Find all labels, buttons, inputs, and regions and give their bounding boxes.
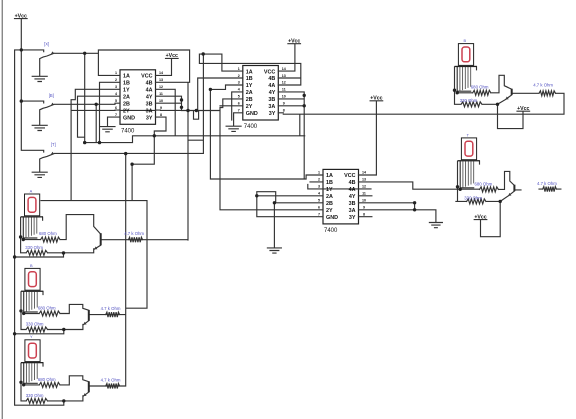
svg-text:2: 2 [115, 78, 117, 82]
svg-text:B: B [30, 263, 33, 268]
svg-text:4B: 4B [349, 180, 356, 186]
svg-text:3A: 3A [268, 104, 275, 110]
svg-text:5: 5 [115, 99, 117, 103]
svg-text:680 Ohm: 680 Ohm [38, 377, 56, 382]
svg-text:680 Ohm: 680 Ohm [39, 231, 57, 236]
svg-text:2Y: 2Y [326, 208, 333, 214]
svg-text:7: 7 [238, 109, 240, 113]
svg-text:5: 5 [318, 199, 320, 203]
svg-text:11: 11 [159, 92, 163, 96]
svg-text:A: A [30, 188, 33, 193]
svg-text:[B]: [B] [49, 93, 54, 98]
svg-text:+Vcc: +Vcc [288, 39, 300, 45]
svg-text:6: 6 [238, 102, 240, 106]
svg-text:1Y: 1Y [246, 83, 253, 89]
svg-text:4: 4 [115, 92, 117, 96]
svg-text:10: 10 [159, 99, 163, 103]
svg-text:7400: 7400 [121, 129, 135, 135]
svg-text:14: 14 [362, 171, 366, 175]
svg-text:8: 8 [160, 113, 162, 117]
svg-text:330 Ohm: 330 Ohm [26, 321, 44, 326]
svg-text:9: 9 [363, 205, 365, 209]
svg-text:4A: 4A [349, 187, 356, 193]
svg-text:4.7 k Ohm: 4.7 k Ohm [124, 231, 144, 236]
svg-text:GND: GND [123, 115, 135, 121]
svg-text:3: 3 [115, 85, 117, 89]
svg-text:VCC: VCC [344, 173, 355, 179]
svg-text:680 Ohm: 680 Ohm [471, 84, 489, 89]
svg-text:GND: GND [246, 111, 258, 117]
svg-text:2B: 2B [123, 101, 130, 107]
svg-text:4.7 k Ohm: 4.7 k Ohm [101, 306, 121, 311]
svg-text:1B: 1B [326, 180, 333, 186]
svg-text:2Y: 2Y [246, 104, 253, 110]
svg-text:2Y: 2Y [123, 108, 130, 114]
svg-text:6: 6 [318, 205, 320, 209]
svg-text:1A: 1A [123, 74, 130, 80]
svg-text:2: 2 [318, 178, 320, 182]
svg-text:3: 3 [238, 81, 240, 85]
svg-text:[X]: [X] [44, 42, 49, 47]
svg-text:7400: 7400 [324, 228, 338, 234]
svg-text:+Vcc: +Vcc [474, 214, 486, 220]
svg-text:4A: 4A [146, 88, 153, 94]
svg-text:680 Ohm: 680 Ohm [475, 181, 493, 186]
svg-text:4: 4 [318, 192, 320, 196]
svg-text:3B: 3B [349, 201, 356, 207]
svg-text:7400: 7400 [244, 124, 258, 130]
svg-text:330 Ohm: 330 Ohm [26, 393, 44, 398]
svg-text:12: 12 [362, 185, 366, 189]
svg-text:4B: 4B [146, 81, 153, 87]
svg-text:13: 13 [362, 178, 366, 182]
svg-text:8: 8 [363, 212, 365, 216]
svg-text:4.7 k Ohm: 4.7 k Ohm [533, 82, 553, 87]
svg-text:3A: 3A [146, 108, 153, 114]
svg-text:8: 8 [283, 109, 285, 113]
svg-text:330 Ohm: 330 Ohm [25, 245, 43, 250]
svg-text:4.7 k Ohm: 4.7 k Ohm [537, 181, 557, 186]
svg-text:Y: Y [30, 334, 33, 339]
svg-text:9: 9 [283, 102, 285, 106]
svg-text:2B: 2B [326, 201, 333, 207]
svg-text:3B: 3B [268, 97, 275, 103]
svg-text:+Vcc: +Vcc [370, 96, 382, 102]
svg-text:1A: 1A [326, 173, 333, 179]
svg-text:7: 7 [318, 212, 320, 216]
svg-text:1B: 1B [246, 76, 253, 82]
svg-text:4: 4 [238, 88, 240, 92]
svg-text:5: 5 [238, 95, 240, 99]
svg-text:4A: 4A [268, 83, 275, 89]
svg-text:3Y: 3Y [269, 111, 276, 117]
svg-text:11: 11 [282, 88, 286, 92]
svg-text:VCC: VCC [264, 69, 275, 75]
svg-text:7: 7 [115, 113, 117, 117]
svg-text:2A: 2A [246, 90, 253, 96]
svg-text:14: 14 [282, 67, 286, 71]
svg-text:6: 6 [115, 106, 117, 110]
svg-text:2A: 2A [326, 194, 333, 200]
svg-text:9: 9 [160, 106, 162, 110]
svg-text:1Y: 1Y [123, 88, 130, 94]
svg-text:2B: 2B [246, 97, 253, 103]
svg-text:[T]: [T] [51, 142, 56, 147]
svg-text:+Vcc: +Vcc [166, 53, 178, 59]
svg-text:+Vcc: +Vcc [517, 106, 529, 112]
svg-text:2: 2 [238, 74, 240, 78]
svg-text:4B: 4B [268, 76, 275, 82]
svg-text:4.7 k Ohm: 4.7 k Ohm [101, 378, 121, 383]
svg-text:1: 1 [115, 71, 117, 75]
svg-text:B: B [463, 38, 466, 43]
svg-text:1: 1 [238, 67, 240, 71]
svg-text:4Y: 4Y [146, 95, 153, 101]
svg-text:VCC: VCC [141, 74, 152, 80]
svg-text:3Y: 3Y [349, 215, 356, 221]
svg-text:4Y: 4Y [269, 90, 276, 96]
svg-text:10: 10 [362, 199, 366, 203]
svg-text:3A: 3A [349, 208, 356, 214]
svg-text:11: 11 [362, 192, 366, 196]
svg-text:13: 13 [282, 74, 286, 78]
svg-text:GND: GND [326, 215, 338, 221]
svg-text:3B: 3B [146, 101, 153, 107]
svg-text:330 Ohm: 330 Ohm [464, 195, 482, 200]
svg-text:12: 12 [159, 85, 163, 89]
svg-text:3Y: 3Y [146, 115, 153, 121]
svg-text:14: 14 [159, 71, 163, 75]
svg-text:10: 10 [282, 95, 286, 99]
svg-text:2A: 2A [123, 95, 130, 101]
svg-text:1A: 1A [246, 69, 253, 75]
svg-text:330 Ohm: 330 Ohm [460, 98, 478, 103]
svg-text:1B: 1B [123, 81, 130, 87]
svg-text:1Y: 1Y [326, 187, 333, 193]
svg-text:12: 12 [282, 81, 286, 85]
svg-text:3: 3 [318, 185, 320, 189]
svg-text:13: 13 [159, 78, 163, 82]
svg-text:4Y: 4Y [349, 194, 356, 200]
svg-text:680 Ohm: 680 Ohm [38, 306, 56, 311]
svg-text:1: 1 [318, 171, 320, 175]
svg-text:+Vcc: +Vcc [15, 13, 27, 19]
